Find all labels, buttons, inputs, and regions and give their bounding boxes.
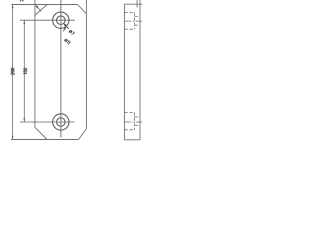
diameter label d11 [64,38,70,44]
side view right face with upper extension [139,0,141,140]
hole H1 horizontal centerline [20,19,75,21]
diameter label d7 [69,30,75,36]
plate top edge with left extension line [11,4,77,6]
hidden line H1 counterbore bottom [124,28,134,30]
hidden line H1 counterbore top [124,11,134,13]
extension line stub above side view [136,0,138,8]
leader for counterbore diameter [63,26,66,31]
leader for inner hole diameter [63,23,69,29]
hidden line H1 through hole bottom [135,24,140,26]
chamfer leader arrow [35,5,41,11]
side view bottom edge [124,139,140,141]
bottom-left chamfer [35,127,47,139]
hidden line H1 counterbore depth [134,12,136,29]
centerline H1 side view [124,20,143,22]
plate bottom edge with left extension line [11,139,79,141]
hole H1 outer circle (counterbore) [53,12,69,28]
hole H2 outer circle (counterbore) [53,114,69,130]
vertical center axis through both holes [60,0,62,138]
hidden line H2 counterbore top [124,111,134,113]
top-right chamfer [78,5,87,14]
hidden line H2 through hole bottom [135,125,140,127]
dimension D1 value label 200 [11,68,14,75]
hidden line H1 through hole top [135,16,140,18]
side view top edge with right extension [124,3,142,5]
plate left edge with upper extension [34,0,36,127]
hidden line H2 counterbore depth [134,112,136,129]
hole H2 horizontal centerline [20,121,75,123]
cut-off dimension text fragments at top [21,0,23,1]
hidden line H2 through hole top [135,116,140,118]
centerline H2 side view [124,121,143,123]
plate right edge with upper extension [85,0,87,129]
top-left chamfer [35,5,47,16]
hole H2 inner circle [57,118,66,127]
hidden line H2 counterbore bottom [124,129,134,131]
bottom-right chamfer [79,129,87,140]
dimension line D2 hole spacing [23,20,25,122]
dimension line D1 overall height [12,5,14,140]
hole H1 inner circle [57,16,66,25]
side view left face [123,4,125,140]
dimension D2 value label 150 [24,68,27,74]
